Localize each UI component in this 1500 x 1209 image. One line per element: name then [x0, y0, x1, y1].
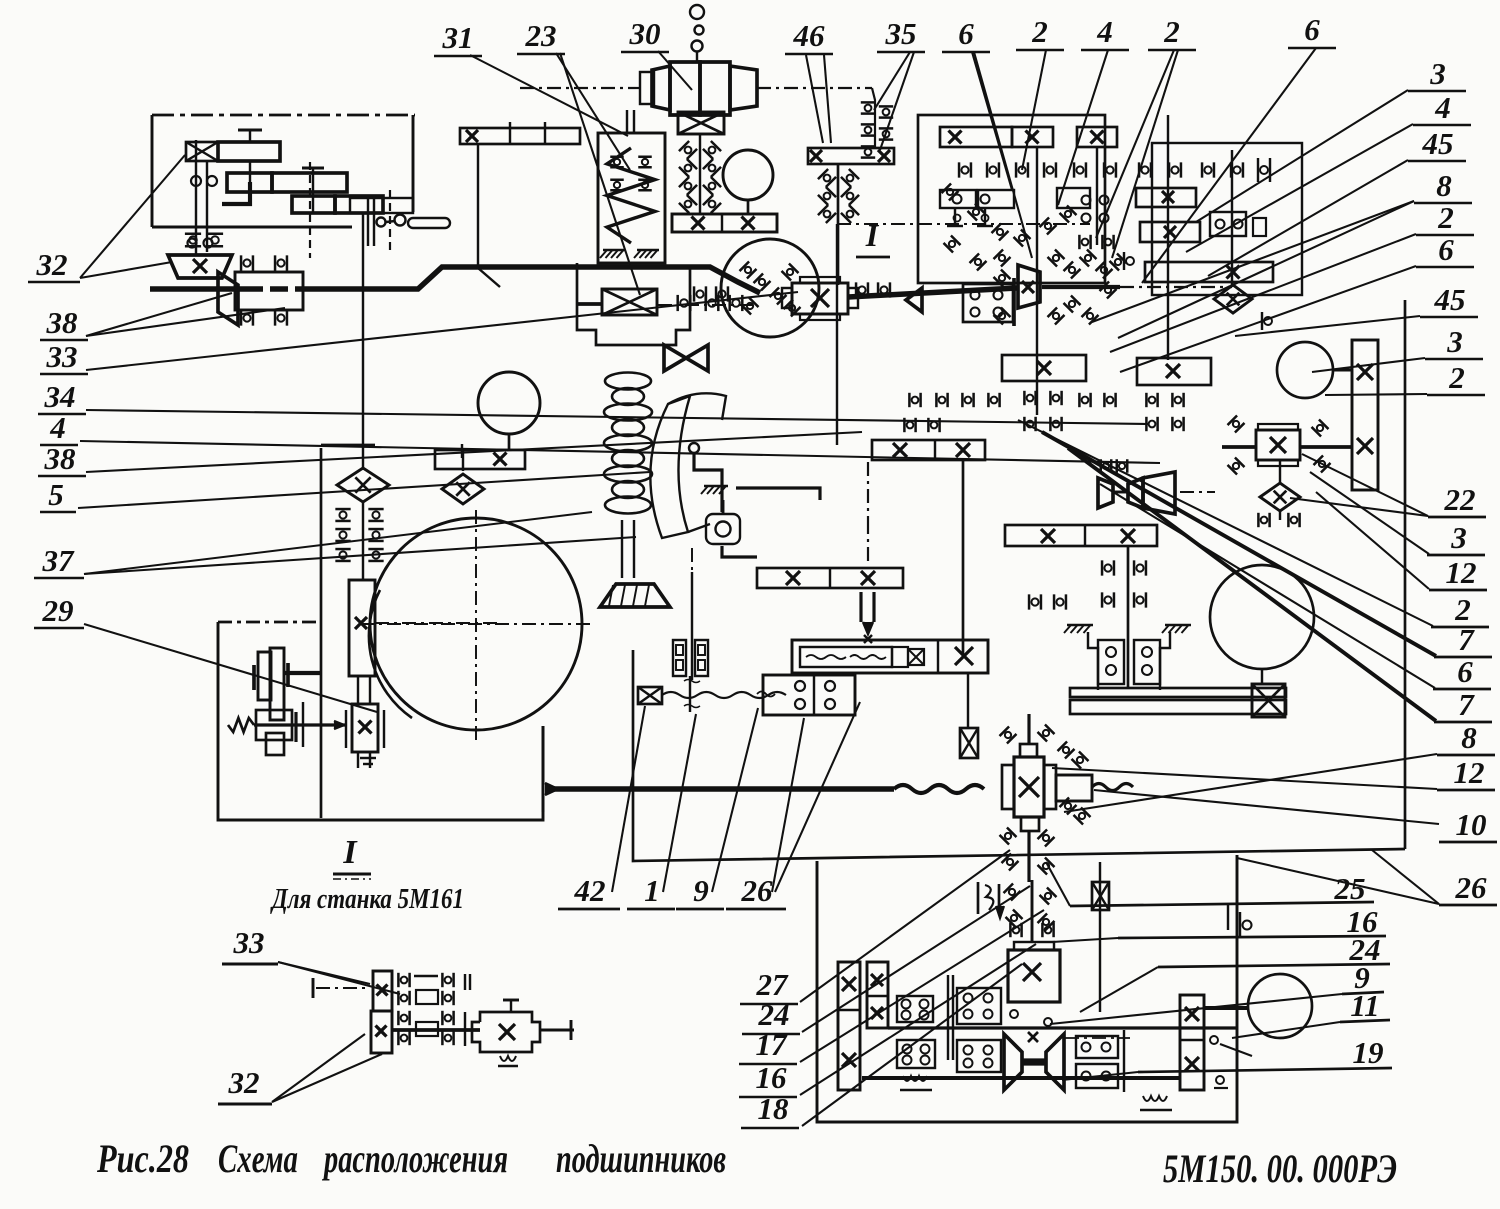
svg-text:7: 7	[1458, 687, 1475, 722]
svg-text:2: 2	[1437, 200, 1454, 235]
svg-text:34: 34	[44, 379, 76, 414]
svg-text:4: 4	[1434, 90, 1451, 125]
svg-text:45: 45	[1422, 126, 1454, 161]
svg-text:I: I	[865, 217, 880, 253]
leader lines from reference numbers	[80, 155, 185, 278]
svg-text:29: 29	[42, 593, 74, 628]
svg-text:7: 7	[1458, 622, 1475, 657]
svg-text:26: 26	[741, 873, 774, 908]
main spindle shaft	[150, 286, 245, 291]
detail I for machine 5M161 (33/32)	[312, 978, 315, 998]
svg-text:33: 33	[46, 339, 78, 374]
svg-text:32: 32	[36, 247, 68, 282]
svg-text:37: 37	[42, 543, 76, 578]
svg-text:Рис.28: Рис.28	[96, 1136, 189, 1181]
svg-text:2: 2	[1448, 360, 1465, 395]
enclosure outlines (right)	[918, 115, 1105, 283]
svg-text:8: 8	[1436, 168, 1452, 203]
svg-text:2: 2	[1163, 14, 1180, 49]
svg-text:19: 19	[1353, 1035, 1384, 1070]
svg-text:4: 4	[49, 410, 66, 445]
gauge wheel and pulley shafts 5/37	[478, 372, 540, 434]
svg-text:6: 6	[1438, 232, 1454, 267]
svg-text:26: 26	[1455, 870, 1488, 905]
svg-text:8: 8	[1461, 720, 1477, 755]
svg-text:подшипников: подшипников	[556, 1136, 726, 1181]
svg-text:5: 5	[48, 477, 64, 512]
svg-text:Схема: Схема	[218, 1136, 298, 1181]
svg-text:33: 33	[233, 925, 265, 960]
gear cluster 2/4/6 (top right)	[940, 127, 1012, 147]
svg-text:3: 3	[1450, 520, 1467, 555]
svg-text:6: 6	[1304, 12, 1320, 47]
svg-text:11: 11	[1350, 988, 1379, 1023]
svg-text:46: 46	[793, 18, 826, 53]
svg-text:расположения: расположения	[322, 1136, 508, 1181]
svg-text:2: 2	[1031, 14, 1048, 49]
bottom right gearbox 16/24/19	[817, 855, 1237, 1122]
svg-text:6: 6	[1457, 654, 1473, 689]
motor unit 30	[690, 5, 704, 19]
svg-text:38: 38	[46, 305, 79, 340]
svg-text:32: 32	[228, 1065, 260, 1100]
svg-text:1: 1	[644, 873, 660, 908]
svg-text:3: 3	[1429, 56, 1446, 91]
svg-text:22: 22	[1444, 482, 1476, 517]
vertical shaft 46/35 with bearings	[808, 148, 894, 164]
svg-text:10: 10	[1456, 807, 1487, 842]
svg-text:30: 30	[629, 16, 661, 51]
spring-loaded tailstock tower 23/31 with gearbox	[598, 133, 665, 263]
svg-text:25: 25	[1334, 871, 1366, 906]
main wheel and worm drive housing 29	[370, 518, 582, 730]
svg-text:38: 38	[44, 441, 77, 476]
feed gearbox unit 32/38 (top left)	[151, 115, 154, 227]
svg-text:17: 17	[756, 1027, 789, 1062]
svg-text:18: 18	[758, 1091, 790, 1126]
svg-text:12: 12	[1446, 555, 1477, 590]
svg-text:5М150. 00. 000РЭ: 5М150. 00. 000РЭ	[1163, 1146, 1397, 1191]
svg-text:45: 45	[1434, 282, 1466, 317]
svg-text:42: 42	[574, 873, 606, 908]
svg-text:6: 6	[958, 16, 974, 51]
svg-text:16: 16	[756, 1060, 788, 1095]
svg-text:23: 23	[525, 18, 557, 53]
svg-text:I: I	[342, 834, 358, 871]
svg-text:12: 12	[1454, 755, 1485, 790]
svg-text:Для станка 5М161: Для станка 5М161	[270, 883, 464, 915]
svg-text:3: 3	[1446, 324, 1463, 359]
oil pan and couplings 42/1/9/26	[691, 548, 693, 572]
svg-text:4: 4	[1096, 14, 1113, 49]
bottom feed shaft with central bearing unit 10/12	[545, 783, 558, 795]
svg-text:31: 31	[442, 20, 474, 55]
svg-text:9: 9	[693, 873, 709, 908]
svg-text:35: 35	[885, 16, 917, 51]
